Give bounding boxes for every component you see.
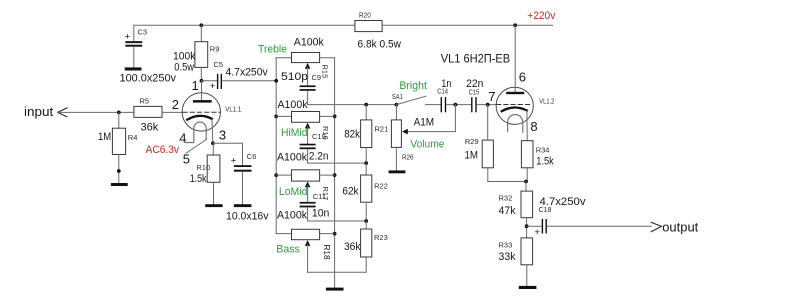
wire Bass row left bbox=[276, 233, 291, 235]
wire C5 to tone stack bus bbox=[222, 80, 276, 82]
svg-text:C18: C18 bbox=[539, 205, 552, 214]
svg-text:R21: R21 bbox=[375, 125, 389, 134]
input arrow head bbox=[58, 108, 68, 113]
svg-text:1: 1 bbox=[192, 78, 199, 93]
svg-text:6.8k 0.5w: 6.8k 0.5w bbox=[358, 39, 402, 51]
svg-text:VL1.2: VL1.2 bbox=[539, 97, 554, 106]
wire R32 bottom lead bbox=[526, 218, 528, 238]
wire pin 5 diagonal heater lead bbox=[186, 140, 206, 154]
ground under C6 bbox=[234, 204, 252, 207]
wire volume pot top lead bbox=[395, 105, 397, 120]
resistor R33 bbox=[521, 238, 533, 265]
wire LoMid row right bbox=[320, 174, 335, 176]
wire row B bbox=[308, 162, 367, 164]
svg-text:C11: C11 bbox=[313, 192, 326, 201]
wire C15 to pin 7 bbox=[477, 104, 497, 106]
wire R23 top lead bbox=[365, 221, 367, 229]
resistor R32 bbox=[521, 191, 533, 218]
ground under R10 bbox=[205, 204, 222, 207]
R15 wiper arrow bbox=[305, 63, 311, 69]
wire node to C18 bbox=[527, 225, 542, 227]
resistor R5 bbox=[134, 106, 162, 117]
VL1.1 heater filament with pin 4 stub bbox=[186, 122, 207, 142]
svg-text:+: + bbox=[210, 81, 216, 92]
ground under tone stack right bus bbox=[326, 288, 344, 291]
wire tone stack right bus bbox=[334, 58, 336, 288]
svg-text:5: 5 bbox=[183, 151, 190, 166]
capacitor C18 plates bbox=[542, 219, 543, 234]
svg-text:36k: 36k bbox=[344, 241, 361, 253]
svg-text:7: 7 bbox=[488, 89, 495, 104]
wire Treble row right bbox=[320, 57, 335, 59]
wire HiMid row left bbox=[276, 115, 291, 117]
wire R10 top lead bbox=[212, 143, 214, 155]
wire C14 to C15 bbox=[446, 104, 471, 106]
wire C6 top lead bbox=[242, 143, 244, 165]
wire C3 bottom lead bbox=[133, 47, 135, 68]
VL1.1 anode plate bar bbox=[193, 100, 212, 103]
svg-text:2.2n: 2.2n bbox=[309, 150, 329, 162]
svg-text:3: 3 bbox=[219, 127, 226, 142]
wire R5 to tube pin 2 bbox=[162, 111, 182, 113]
svg-text:+: + bbox=[534, 227, 540, 238]
svg-text:10n: 10n bbox=[312, 208, 330, 220]
svg-text:R9: R9 bbox=[210, 45, 220, 54]
potentiometer R26 volume bbox=[391, 120, 401, 147]
svg-text:8: 8 bbox=[530, 119, 537, 134]
wire R26 bottom lead bbox=[395, 147, 397, 170]
ground under C3 bbox=[125, 67, 142, 70]
node junction dot cathode network join bbox=[524, 180, 528, 184]
svg-text:C6: C6 bbox=[247, 152, 257, 161]
node junction dot row B chain bbox=[364, 161, 368, 165]
node junction dot output divider bbox=[525, 224, 529, 228]
node junction dot pin 7 R29 bbox=[486, 103, 490, 107]
node junction dot cathode VL1.1 bbox=[211, 141, 215, 145]
node junction dot top rail at VL1.2 plate bbox=[513, 23, 517, 27]
wire top supply rail left segment bbox=[134, 24, 355, 26]
node junction dot above R4 ground bbox=[117, 169, 121, 173]
wire VL1.1 plate lead from node 1 bbox=[201, 81, 203, 101]
wire cathode node to C6 bbox=[213, 142, 243, 144]
svg-text:82k: 82k bbox=[344, 129, 360, 141]
wire tone stack left bus bbox=[275, 58, 277, 234]
R16 wiper arrow bbox=[305, 123, 311, 129]
svg-text:VL1.1: VL1.1 bbox=[225, 105, 241, 114]
VL1.2 grid dashed line bbox=[497, 104, 533, 106]
triode VL1.1 envelope bbox=[182, 93, 220, 131]
VL1.2 anode plate bar bbox=[506, 92, 524, 94]
svg-text:+: + bbox=[125, 32, 131, 43]
wire node 1 to C5 bbox=[202, 80, 217, 82]
svg-text:R32: R32 bbox=[499, 194, 513, 203]
node junction dot right bus Bass bbox=[333, 232, 337, 236]
resistor R34 bbox=[521, 141, 533, 168]
svg-text:C5: C5 bbox=[214, 60, 224, 69]
svg-text:R20: R20 bbox=[359, 11, 371, 20]
node junction dot left bus HiMid bbox=[274, 115, 278, 119]
wire R21 top lead bbox=[365, 105, 367, 120]
wire input line to R5 bbox=[58, 111, 134, 113]
svg-text:47k: 47k bbox=[499, 205, 516, 217]
ground under R26 bbox=[389, 170, 406, 173]
svg-text:R18: R18 bbox=[322, 245, 331, 260]
svg-text:A100k: A100k bbox=[277, 152, 307, 164]
svg-text:R4: R4 bbox=[128, 133, 138, 142]
wire Bass row right bbox=[320, 233, 335, 235]
ground under R33 bbox=[519, 286, 537, 289]
wire C11 bottom to row C bbox=[307, 207, 309, 221]
resistor R21 bbox=[361, 120, 372, 148]
svg-text:36k: 36k bbox=[141, 122, 159, 134]
svg-text:+: + bbox=[231, 156, 237, 167]
capacitor C11 plates bbox=[300, 202, 316, 204]
potentiometer R17 LoMid bbox=[292, 170, 320, 181]
svg-text:SA1: SA1 bbox=[392, 92, 403, 101]
capacitor C3 plates bbox=[125, 41, 142, 43]
wire R21 bottom lead bbox=[365, 148, 367, 164]
svg-text:R10: R10 bbox=[196, 163, 210, 172]
wire C10 bottom to row B bbox=[307, 149, 309, 163]
svg-text:HiMid: HiMid bbox=[281, 127, 308, 139]
wire top supply rail right segment bbox=[382, 24, 552, 26]
svg-text:1.5k: 1.5k bbox=[536, 155, 554, 167]
wire R9 bottom lead to node 1 bbox=[200, 67, 202, 80]
wire VL1.1 cathode lead pin 3 bbox=[212, 119, 213, 144]
svg-text:510p: 510p bbox=[281, 71, 308, 83]
svg-text:A100k: A100k bbox=[294, 36, 324, 48]
node junction dot row A chain bbox=[364, 103, 368, 107]
R26 wiper arrow bbox=[402, 129, 408, 135]
node junction dot input with R4 bbox=[117, 111, 121, 115]
wire C18 to output bbox=[547, 225, 651, 227]
resistor R4 bbox=[112, 128, 125, 154]
VL1.2 heater filament bbox=[508, 115, 523, 133]
svg-text:output: output bbox=[662, 219, 698, 234]
wire R22 top lead bbox=[365, 163, 367, 175]
capacitor C5 plates bbox=[217, 74, 218, 89]
potentiometer R15 Treble bbox=[292, 53, 320, 63]
node junction dot top rail at R9 bbox=[199, 23, 203, 27]
svg-text:33k: 33k bbox=[499, 251, 516, 263]
svg-text:1.5k: 1.5k bbox=[190, 173, 207, 185]
wire VL1.2 cathode lead pin 8 bbox=[526, 111, 528, 141]
svg-text:A100k: A100k bbox=[278, 99, 308, 111]
wire Bass wiper to R23 bottom bbox=[308, 271, 367, 273]
svg-text:C10: C10 bbox=[312, 132, 326, 141]
wire R10 bottom lead bbox=[213, 182, 215, 204]
svg-text:Bass: Bass bbox=[276, 243, 300, 255]
svg-text:A100k: A100k bbox=[277, 210, 307, 222]
svg-text:R5: R5 bbox=[140, 96, 150, 105]
svg-text:Volume: Volume bbox=[410, 139, 444, 151]
ground under R4 bbox=[111, 183, 128, 186]
wire HiMid row right bbox=[320, 115, 335, 117]
resistor R20 bbox=[355, 21, 382, 32]
wire volume wiper tap from C14 C15 node bbox=[454, 105, 456, 132]
node junction dot left bus input bbox=[274, 79, 278, 83]
R17 wiper arrow bbox=[305, 182, 311, 188]
triode VL1.2 envelope bbox=[496, 87, 533, 124]
wire R29 to R34 join bbox=[488, 181, 526, 183]
wire R9 top lead bbox=[200, 25, 202, 41]
wire R22 bottom lead bbox=[365, 202, 367, 221]
wire R4 top lead bbox=[118, 112, 120, 128]
VL1.1 cathode arc bbox=[187, 116, 212, 120]
wire VL1.2 plate lead from supply bbox=[514, 25, 516, 92]
wire C3 top lead bbox=[133, 25, 135, 41]
svg-text:+220v: +220v bbox=[527, 10, 555, 22]
svg-text:C9: C9 bbox=[312, 73, 322, 82]
svg-text:R29: R29 bbox=[465, 137, 479, 146]
wire R34 bottom lead bbox=[526, 168, 528, 182]
wire row A to volume node bbox=[308, 104, 397, 106]
svg-text:1M: 1M bbox=[98, 131, 111, 143]
node 1 junction dot bbox=[200, 79, 204, 83]
wire R33 bottom lead bbox=[526, 265, 528, 286]
node junction dot volume top SA1 bbox=[395, 103, 399, 107]
switch SA1 arm bbox=[396, 96, 426, 104]
resistor R10 bbox=[207, 155, 220, 182]
potentiometer R16 HiMid bbox=[292, 112, 320, 123]
node junction dot right bus LoMid bbox=[333, 173, 337, 177]
wire to R32 bbox=[525, 182, 527, 192]
svg-text:1n: 1n bbox=[441, 78, 451, 90]
VL1.2 cathode arc bbox=[502, 108, 527, 112]
capacitor C9 plates bbox=[300, 85, 316, 87]
wire C9 bottom to row A bbox=[307, 91, 309, 105]
wire SA1 to C14 bbox=[426, 104, 441, 106]
capacitor C15 plates bbox=[471, 97, 472, 112]
wire R29 top lead bbox=[487, 105, 489, 141]
output arrow head bbox=[651, 222, 661, 226]
svg-text:Bright: Bright bbox=[399, 80, 427, 92]
svg-text:0.5w: 0.5w bbox=[174, 61, 194, 73]
svg-text:R26: R26 bbox=[402, 153, 414, 162]
resistor R9 bbox=[195, 42, 208, 68]
svg-text:100.0x250v: 100.0x250v bbox=[120, 73, 177, 85]
svg-text:1M: 1M bbox=[465, 149, 479, 161]
node junction dot right bus HiMid bbox=[333, 115, 337, 119]
node junction dot left bus LoMid bbox=[274, 173, 278, 177]
svg-text:input: input bbox=[24, 104, 54, 119]
wire row C bbox=[308, 220, 367, 222]
wire R4 bottom lead bbox=[118, 155, 120, 184]
resistor R23 bbox=[361, 229, 372, 257]
capacitor C6 plates bbox=[234, 165, 252, 167]
svg-text:R23: R23 bbox=[374, 233, 388, 242]
svg-text:VL1 6H2П-EB: VL1 6H2П-EB bbox=[441, 51, 511, 65]
svg-text:Treble: Treble bbox=[258, 44, 287, 56]
svg-text:R34: R34 bbox=[536, 146, 550, 155]
svg-text:R22: R22 bbox=[374, 182, 388, 191]
wire LoMid row left bbox=[276, 174, 291, 176]
node junction dot C14 C15 bbox=[454, 103, 458, 107]
capacitor C10 plates bbox=[300, 144, 316, 146]
svg-text:4: 4 bbox=[179, 131, 186, 146]
resistor R29 bbox=[482, 140, 493, 168]
svg-text:LoMid: LoMid bbox=[279, 186, 308, 198]
svg-text:A1M: A1M bbox=[414, 116, 435, 128]
svg-text:R15: R15 bbox=[321, 65, 330, 79]
svg-text:6: 6 bbox=[519, 69, 526, 84]
svg-text:R33: R33 bbox=[499, 240, 513, 249]
resistor R22 bbox=[361, 175, 372, 202]
VL1.1 grid dashed line bbox=[183, 111, 220, 113]
svg-text:22n: 22n bbox=[466, 78, 483, 90]
potentiometer R18 Bass bbox=[292, 229, 320, 239]
svg-text:2: 2 bbox=[172, 97, 179, 112]
svg-text:C3: C3 bbox=[138, 27, 148, 36]
wire R29 bottom lead bbox=[487, 168, 489, 182]
svg-text:10.0x16v: 10.0x16v bbox=[226, 210, 269, 222]
capacitor C14 plates bbox=[441, 97, 442, 112]
node junction dot row C chain bbox=[364, 219, 368, 223]
R18 wiper arrow bbox=[305, 240, 311, 246]
svg-text:4.7x250v: 4.7x250v bbox=[226, 67, 269, 79]
wire C6 bottom lead bbox=[242, 172, 244, 205]
svg-text:62k: 62k bbox=[342, 185, 359, 197]
svg-text:AC6.3v: AC6.3v bbox=[146, 144, 180, 156]
wire Treble row left bbox=[276, 57, 291, 59]
